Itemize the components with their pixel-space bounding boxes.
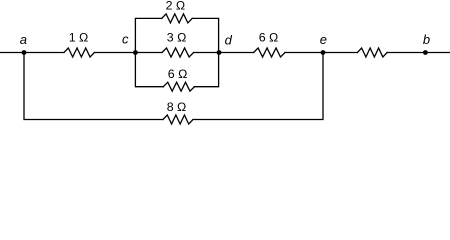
- wire bottom loop left riser and lead (from node a): [24, 53, 163, 120]
- svg-text:d: d: [225, 33, 233, 48]
- wire segment 1-ohm to 3-ohm (through node c): [94, 52, 162, 54]
- svg-text:e: e: [320, 32, 327, 47]
- svg-text:c: c: [122, 32, 129, 47]
- wire bottom loop right lead and riser (to node e): [193, 53, 323, 120]
- wire main left segment (edge to 1-ohm): [0, 52, 64, 54]
- resistor R6 6 ohm zigzag (bottom branch): [163, 82, 194, 91]
- wire top branch right lead and riser: [192, 18, 218, 52]
- resistor R1 1 ohm zigzag: [64, 48, 94, 57]
- wire bottom parallel branch left riser and lead: [135, 53, 163, 87]
- resistor R4 6 ohm zigzag: [254, 48, 285, 57]
- svg-text:6 Ω: 6 Ω: [259, 30, 279, 44]
- node d: [217, 50, 222, 55]
- svg-text:3 Ω: 3 Ω: [167, 30, 187, 44]
- node a: [22, 50, 27, 55]
- node c: [133, 50, 138, 55]
- svg-text:8 Ω: 8 Ω: [167, 100, 187, 114]
- resistor unlabeled (e-b) zigzag: [357, 48, 387, 57]
- wire bottom parallel branch right lead and riser: [194, 53, 218, 87]
- svg-text:a: a: [20, 32, 27, 47]
- node e: [321, 50, 326, 55]
- svg-text:b: b: [423, 32, 430, 47]
- node b: [423, 50, 428, 55]
- wire segment 6-ohm to unlabeled resistor (through node e): [285, 52, 357, 54]
- svg-text:1 Ω: 1 Ω: [69, 31, 89, 45]
- svg-text:6 Ω: 6 Ω: [168, 67, 188, 81]
- resistor R8 8 ohm zigzag: [163, 115, 193, 124]
- resistor R2 2 ohm zigzag: [162, 14, 193, 23]
- wire segment to right edge (through node b): [387, 52, 450, 54]
- svg-text:2 Ω: 2 Ω: [166, 0, 186, 13]
- resistor R3 3 ohm zigzag: [162, 48, 194, 57]
- wire segment 3-ohm to 6-ohm (through node d): [194, 52, 254, 54]
- wire top branch left riser and lead: [135, 18, 161, 52]
